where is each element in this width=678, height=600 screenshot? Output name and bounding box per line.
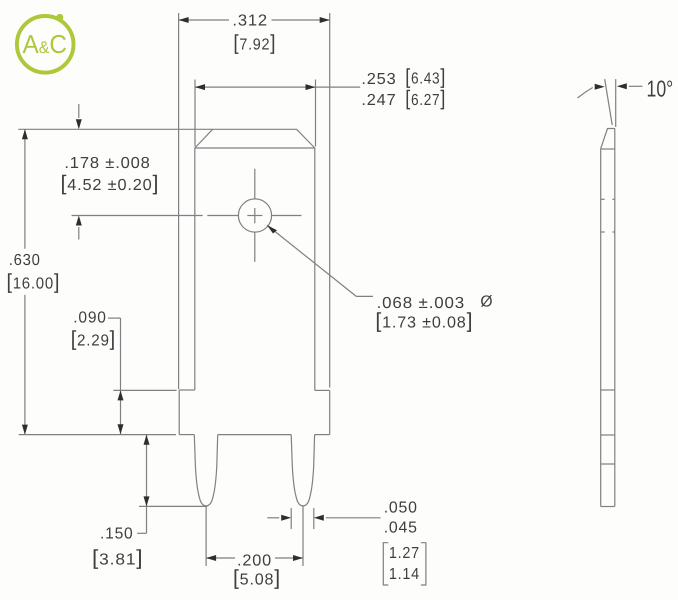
- dimension .312 extension line left: [178, 13, 180, 389]
- logo A&C circle: [17, 14, 74, 73]
- svg-text:1.27: 1.27: [389, 545, 420, 562]
- front view bottom edge right: [315, 434, 330, 436]
- dimension .178 top line: [18, 128, 212, 130]
- front view right side: [314, 148, 316, 390]
- side view bend lines: [601, 389, 615, 391]
- front view chamfer base line: [195, 147, 315, 149]
- svg-text:.630: .630: [9, 252, 41, 269]
- dimension .150 dim line: [146, 435, 148, 534]
- dimension .630 line: [24, 129, 26, 249]
- side view hidden hole ticks: [601, 198, 605, 200]
- svg-text:[4.52 ±0.20]: [4.52 ±0.20]: [61, 172, 160, 195]
- svg-text:[2.29]: [2.29]: [71, 327, 116, 350]
- side view left edge: [600, 149, 602, 507]
- dimension .050/.045 arrows: [267, 517, 279, 519]
- dimension .253/.247 line and leader: [195, 86, 316, 88]
- svg-text:.312: .312: [232, 13, 268, 30]
- svg-text:[3.81]: [3.81]: [92, 547, 144, 570]
- hole centerline vertical segments: [254, 169, 256, 199]
- hole circle: [238, 199, 271, 232]
- svg-text:.050: .050: [384, 500, 418, 517]
- dimension .200 extension lines (leg centerlines): [205, 506, 207, 566]
- svg-text:[6.43]: [6.43]: [405, 66, 446, 89]
- dimension .178 bottom line (hole center extended): [72, 215, 203, 217]
- svg-text:[7.92]: [7.92]: [233, 32, 276, 55]
- svg-text:.045: .045: [384, 519, 418, 536]
- dimension .090 extension line: [113, 389, 176, 391]
- svg-text:A&C: A&C: [23, 29, 68, 59]
- tall bracket pair for 1.27/1.14: [383, 543, 426, 585]
- side view bottom edge: [601, 506, 615, 508]
- dimension .150 leg tip line: [139, 505, 207, 507]
- front view bottom edge middle: [218, 434, 292, 436]
- dimension .178 bottom arrow: [78, 227, 80, 240]
- svg-text:.253: .253: [361, 71, 396, 88]
- svg-text:.200: .200: [237, 552, 272, 569]
- front view right shoulder side: [329, 390, 331, 434]
- svg-text:.178 ±.008: .178 ±.008: [64, 155, 150, 172]
- side view top chamfer: [601, 129, 615, 149]
- 10 deg slanted line: [605, 79, 613, 125]
- svg-text:[16.00]: [16.00]: [7, 271, 61, 294]
- dimension .090 dim line with hook to text: [108, 317, 121, 319]
- side view chamfer base line: [601, 148, 615, 150]
- svg-text:[5.08]: [5.08]: [233, 567, 281, 590]
- dimension .253/.247 extension lines: [194, 80, 196, 147]
- svg-text:[1.73 ±0.08]: [1.73 ±0.08]: [375, 309, 473, 332]
- front view right step: [315, 389, 330, 391]
- svg-text:.150: .150: [100, 526, 134, 543]
- front view bottom edge left: [179, 434, 194, 436]
- front view outline: top edge with chamfers: [195, 129, 315, 148]
- dimension .178 top arrow: [78, 104, 80, 118]
- front view right leg: [291, 435, 314, 506]
- svg-text:Ø: Ø: [480, 294, 493, 311]
- svg-text:[6.27]: [6.27]: [405, 87, 446, 110]
- svg-text:.247: .247: [361, 92, 396, 109]
- dimension .312 line: [179, 19, 229, 21]
- front view left shoulder side: [178, 390, 180, 435]
- hole centerline horizontal segments: [207, 215, 238, 217]
- 10 deg right arrow: [629, 85, 643, 87]
- svg-text:1.14: 1.14: [389, 566, 420, 583]
- 10 deg left arrow with curved leader: [578, 88, 593, 99]
- front view left leg: [194, 435, 217, 506]
- front view left side: [194, 148, 196, 390]
- dimension .050/.045 extension lines: [290, 508, 292, 529]
- dimension .630 bottom extension line: [19, 434, 176, 436]
- hole leader arrow: [267, 225, 356, 296]
- 10 deg extension line vertical: [615, 79, 617, 127]
- side view right edge: [614, 129, 616, 507]
- svg-text:.068 ±.003: .068 ±.003: [377, 295, 466, 312]
- dimension .312 extension line right: [329, 13, 331, 388]
- dimension .200 line: [206, 557, 235, 559]
- svg-text:.090: .090: [73, 310, 106, 327]
- front view left step: [179, 389, 195, 391]
- svg-text:10°: 10°: [647, 76, 674, 102]
